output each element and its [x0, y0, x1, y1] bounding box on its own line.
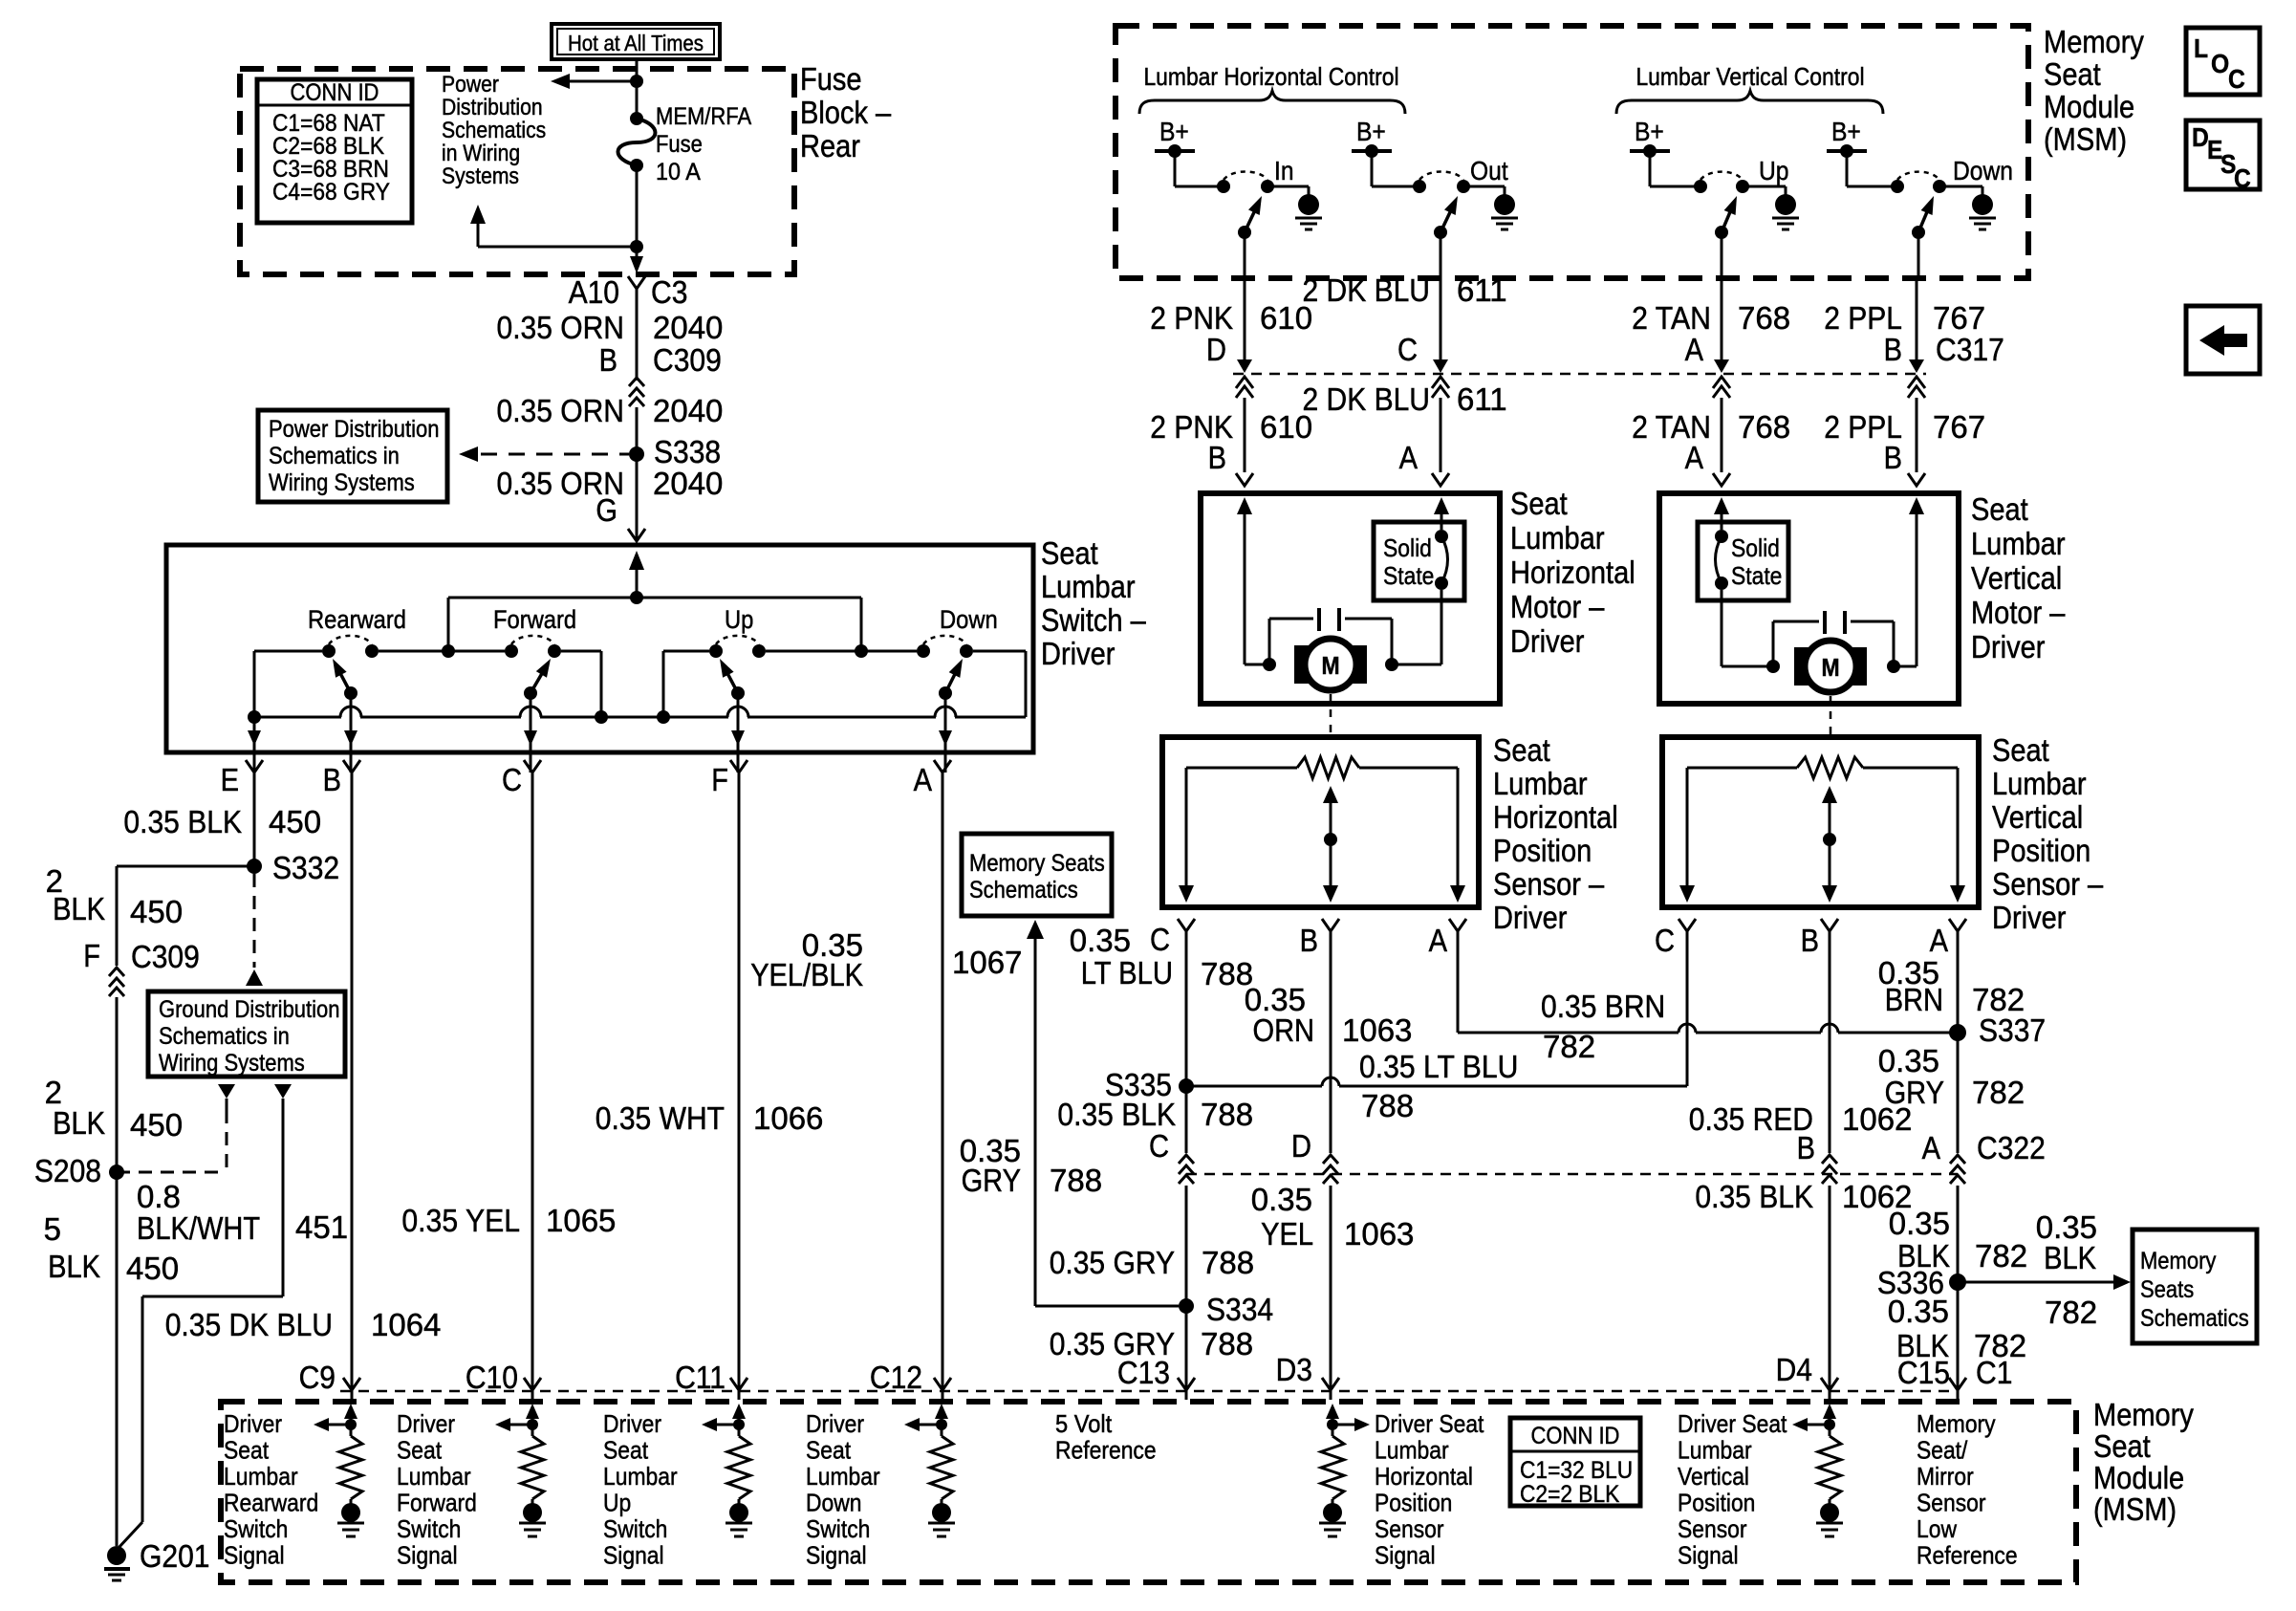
svg-text:C12: C12: [870, 1360, 922, 1395]
svg-text:Horizontal: Horizontal: [1510, 555, 1635, 590]
svg-text:Seat/: Seat/: [1917, 1436, 1968, 1465]
svg-text:B+: B+: [1356, 117, 1386, 146]
svg-text:BLK: BLK: [2044, 1240, 2096, 1275]
svg-text:Position: Position: [1992, 833, 2090, 868]
svg-text:A: A: [914, 762, 932, 797]
svg-text:Motor –: Motor –: [1510, 589, 1605, 624]
svg-text:Down: Down: [940, 605, 998, 634]
svg-text:Sensor: Sensor: [1375, 1514, 1444, 1543]
svg-text:M: M: [1821, 653, 1839, 682]
svg-text:B: B: [1801, 923, 1819, 958]
svg-text:Signal: Signal: [224, 1541, 285, 1570]
svg-text:A: A: [1930, 923, 1948, 958]
svg-text:Signal: Signal: [806, 1541, 867, 1570]
svg-text:Block –: Block –: [800, 95, 892, 130]
svg-text:788: 788: [1202, 1245, 1254, 1280]
svg-text:Memory: Memory: [2093, 1397, 2194, 1432]
svg-text:782: 782: [1543, 1029, 1595, 1064]
svg-text:Driver Seat: Driver Seat: [1678, 1409, 1787, 1438]
svg-text:Solid: Solid: [1383, 533, 1432, 562]
svg-text:0.35: 0.35: [1889, 1206, 1950, 1241]
svg-text:788: 788: [1050, 1163, 1102, 1198]
svg-text:Schematics: Schematics: [2140, 1305, 2249, 1332]
svg-text:B: B: [1884, 440, 1902, 475]
svg-text:Position: Position: [1375, 1489, 1452, 1517]
svg-text:Down: Down: [1953, 156, 2013, 185]
svg-text:451: 451: [295, 1209, 348, 1245]
svg-text:Signal: Signal: [1678, 1541, 1739, 1570]
svg-text:Schematics: Schematics: [969, 877, 1078, 903]
svg-text:788: 788: [1201, 1326, 1253, 1361]
svg-text:Driver Seat: Driver Seat: [1375, 1409, 1484, 1438]
svg-text:S332: S332: [272, 850, 339, 885]
svg-text:Up: Up: [603, 1489, 631, 1517]
svg-text:A: A: [1429, 923, 1447, 958]
svg-text:Seat: Seat: [1992, 732, 2049, 768]
svg-text:(MSM): (MSM): [2093, 1491, 2177, 1527]
svg-text:2 TAN: 2 TAN: [1632, 300, 1711, 336]
svg-text:A: A: [1685, 332, 1703, 367]
svg-text:C2=2 BLK: C2=2 BLK: [1520, 1481, 1620, 1508]
svg-text:Lumbar: Lumbar: [1971, 526, 2066, 561]
svg-text:A10: A10: [569, 274, 619, 310]
svg-text:Power: Power: [442, 72, 499, 98]
svg-text:C10: C10: [466, 1360, 518, 1395]
svg-text:Vertical: Vertical: [1992, 799, 2083, 835]
svg-text:782: 782: [2045, 1295, 2097, 1330]
svg-text:10 A: 10 A: [656, 159, 701, 185]
svg-text:Wiring Systems: Wiring Systems: [269, 469, 415, 496]
svg-text:788: 788: [1361, 1088, 1414, 1123]
svg-text:450: 450: [130, 894, 183, 929]
svg-text:D3: D3: [1276, 1352, 1312, 1387]
svg-text:Signal: Signal: [397, 1541, 458, 1570]
svg-text:Seat: Seat: [397, 1436, 443, 1465]
svg-text:A: A: [1399, 440, 1418, 475]
svg-text:Seat: Seat: [1041, 535, 1098, 571]
svg-text:B+: B+: [1159, 117, 1189, 146]
svg-text:Lumbar: Lumbar: [397, 1462, 471, 1491]
svg-text:0.35: 0.35: [1070, 923, 1131, 958]
svg-text:Motor –: Motor –: [1971, 595, 2066, 630]
svg-text:State: State: [1731, 561, 1782, 590]
svg-text:0.35 BLK: 0.35 BLK: [1695, 1179, 1813, 1214]
svg-text:C1=32 BLU: C1=32 BLU: [1520, 1457, 1633, 1484]
svg-text:Rearward: Rearward: [224, 1489, 318, 1517]
svg-text:ORN: ORN: [1253, 1012, 1315, 1048]
svg-text:BLK: BLK: [48, 1249, 100, 1284]
svg-text:Seat: Seat: [224, 1436, 270, 1465]
svg-text:1066: 1066: [753, 1100, 823, 1136]
svg-text:Driver: Driver: [397, 1409, 455, 1438]
svg-text:G: G: [596, 492, 617, 528]
svg-text:D4: D4: [1776, 1352, 1812, 1387]
svg-text:Position: Position: [1493, 833, 1592, 868]
svg-text:O: O: [2211, 49, 2229, 78]
svg-text:State: State: [1383, 561, 1434, 590]
svg-text:Mirror: Mirror: [1917, 1462, 1974, 1491]
svg-text:0.35 ORN: 0.35 ORN: [497, 310, 625, 345]
svg-text:1067: 1067: [952, 945, 1022, 980]
svg-text:C317: C317: [1936, 332, 2004, 367]
svg-text:Reference: Reference: [1917, 1541, 2018, 1570]
svg-text:0.35 LT BLU: 0.35 LT BLU: [1359, 1049, 1518, 1084]
svg-text:Up: Up: [1759, 156, 1789, 185]
svg-text:Driver: Driver: [1971, 629, 2045, 664]
svg-text:Down: Down: [806, 1489, 862, 1517]
svg-text:Schematics in: Schematics in: [269, 443, 400, 469]
svg-text:782: 782: [1972, 982, 2025, 1017]
svg-text:Fuse: Fuse: [800, 61, 862, 97]
svg-text:0.8: 0.8: [137, 1179, 181, 1214]
svg-text:Switch: Switch: [806, 1514, 870, 1543]
svg-text:Driver: Driver: [603, 1409, 661, 1438]
svg-text:in Wiring: in Wiring: [442, 141, 520, 166]
svg-text:Lumbar: Lumbar: [1041, 569, 1136, 604]
svg-text:Driver: Driver: [1510, 623, 1584, 659]
svg-text:Hot at All Times: Hot at All Times: [568, 31, 704, 55]
svg-text:Module: Module: [2093, 1460, 2184, 1495]
svg-text:Forward: Forward: [397, 1489, 477, 1517]
svg-text:Seat: Seat: [1493, 732, 1550, 768]
svg-text:C: C: [502, 762, 522, 797]
svg-text:Sensor –: Sensor –: [1493, 866, 1605, 902]
svg-text:768: 768: [1738, 300, 1790, 336]
svg-text:Rearward: Rearward: [308, 605, 406, 634]
svg-text:C: C: [2234, 163, 2251, 193]
svg-text:Up: Up: [725, 605, 753, 634]
svg-text:0.35 ORN: 0.35 ORN: [497, 393, 625, 428]
svg-text:Ground Distribution: Ground Distribution: [159, 996, 340, 1023]
svg-text:B+: B+: [1635, 117, 1664, 146]
svg-text:Memory: Memory: [2044, 24, 2144, 59]
svg-text:Systems: Systems: [442, 163, 519, 189]
svg-text:Schematics in: Schematics in: [159, 1023, 290, 1050]
svg-text:B: B: [1208, 440, 1226, 475]
svg-text:2040: 2040: [653, 310, 723, 345]
svg-text:5 Volt: 5 Volt: [1055, 1409, 1113, 1438]
svg-text:S334: S334: [1206, 1292, 1273, 1327]
svg-text:1063: 1063: [1342, 1012, 1412, 1048]
svg-text:768: 768: [1738, 409, 1790, 445]
svg-text:B: B: [323, 762, 341, 797]
svg-text:CONN ID: CONN ID: [1531, 1423, 1620, 1449]
svg-text:C4=68 GRY: C4=68 GRY: [272, 179, 390, 206]
svg-text:Seat: Seat: [1510, 486, 1568, 521]
svg-text:2 DK BLU: 2 DK BLU: [1303, 272, 1431, 308]
svg-text:Memory: Memory: [2140, 1248, 2217, 1274]
svg-text:Vertical: Vertical: [1678, 1462, 1749, 1491]
svg-text:Seats: Seats: [2140, 1276, 2194, 1303]
svg-text:Horizontal: Horizontal: [1375, 1462, 1473, 1491]
svg-text:Seat: Seat: [2093, 1428, 2151, 1464]
svg-text:C: C: [1150, 922, 1170, 957]
svg-text:2 DK BLU: 2 DK BLU: [1303, 381, 1431, 417]
svg-text:C: C: [2228, 64, 2245, 94]
svg-text:2 PNK: 2 PNK: [1150, 300, 1233, 336]
svg-text:610: 610: [1260, 300, 1312, 336]
svg-text:Fuse: Fuse: [656, 131, 703, 158]
svg-text:D: D: [1291, 1128, 1311, 1164]
svg-text:C322: C322: [1977, 1130, 2046, 1165]
svg-text:611: 611: [1457, 272, 1507, 308]
svg-text:M: M: [1321, 651, 1339, 680]
svg-text:0.35: 0.35: [1878, 1043, 1939, 1078]
svg-text:B+: B+: [1831, 117, 1861, 146]
svg-text:450: 450: [269, 804, 321, 839]
svg-text:In: In: [1274, 156, 1294, 185]
svg-text:Switch: Switch: [397, 1514, 461, 1543]
svg-text:Memory Seats: Memory Seats: [969, 850, 1105, 877]
svg-text:Rear: Rear: [800, 128, 860, 163]
svg-text:C309: C309: [131, 939, 200, 974]
svg-text:C: C: [1397, 332, 1418, 367]
svg-text:S208: S208: [34, 1153, 101, 1188]
svg-text:0.35 YEL: 0.35 YEL: [401, 1203, 520, 1238]
svg-text:Signal: Signal: [603, 1541, 664, 1570]
svg-text:0.35 BLK: 0.35 BLK: [1057, 1097, 1176, 1132]
svg-text:Seat: Seat: [1971, 491, 2028, 527]
svg-text:Driver: Driver: [1992, 900, 2066, 935]
svg-text:MEM/RFA: MEM/RFA: [656, 103, 751, 130]
svg-text:CONN ID: CONN ID: [291, 79, 379, 106]
svg-text:2040: 2040: [653, 393, 723, 428]
svg-text:Lumbar: Lumbar: [1375, 1436, 1449, 1465]
svg-text:0.35: 0.35: [1251, 1182, 1312, 1217]
svg-text:C309: C309: [653, 342, 722, 378]
svg-text:Reference: Reference: [1055, 1436, 1157, 1465]
svg-text:Lumbar: Lumbar: [806, 1462, 880, 1491]
svg-text:LT BLU: LT BLU: [1081, 955, 1173, 991]
svg-text:C: C: [1149, 1128, 1169, 1164]
svg-text:611: 611: [1457, 381, 1507, 417]
svg-text:2 PPL: 2 PPL: [1824, 300, 1902, 336]
svg-text:Low: Low: [1917, 1514, 1957, 1543]
svg-text:782: 782: [1975, 1238, 2027, 1274]
svg-text:Lumbar: Lumbar: [603, 1462, 678, 1491]
svg-text:G201: G201: [140, 1538, 210, 1574]
svg-text:Driver: Driver: [1041, 636, 1115, 671]
svg-text:Distribution: Distribution: [442, 95, 543, 120]
svg-text:L: L: [2194, 33, 2208, 63]
svg-text:2040: 2040: [653, 466, 723, 501]
svg-text:Sensor –: Sensor –: [1992, 866, 2104, 902]
svg-text:F: F: [711, 762, 728, 797]
svg-text:1064: 1064: [371, 1307, 441, 1342]
svg-text:Power Distribution: Power Distribution: [269, 416, 440, 443]
svg-text:Horizontal: Horizontal: [1493, 799, 1618, 835]
svg-text:Lumbar: Lumbar: [1992, 766, 2087, 801]
svg-text:Lumbar: Lumbar: [1510, 520, 1605, 555]
svg-text:Sensor: Sensor: [1678, 1514, 1747, 1543]
svg-text:Switch –: Switch –: [1041, 602, 1146, 638]
svg-text:C11: C11: [675, 1360, 726, 1395]
svg-text:YEL: YEL: [1261, 1216, 1313, 1252]
svg-text:Position: Position: [1678, 1489, 1755, 1517]
svg-text:A: A: [1685, 440, 1703, 475]
svg-text:BLK: BLK: [53, 891, 105, 926]
svg-text:C13: C13: [1117, 1355, 1170, 1390]
svg-text:0.35 WHT: 0.35 WHT: [596, 1100, 725, 1136]
svg-text:Memory: Memory: [1917, 1409, 1996, 1438]
svg-text:(MSM): (MSM): [2044, 121, 2127, 157]
svg-text:BLK/WHT: BLK/WHT: [137, 1210, 260, 1246]
svg-text:F: F: [83, 938, 100, 973]
svg-text:YEL/BLK: YEL/BLK: [750, 957, 863, 992]
svg-text:Switch: Switch: [224, 1514, 288, 1543]
svg-text:0.35 RED: 0.35 RED: [1689, 1101, 1813, 1137]
svg-text:B: B: [1884, 332, 1902, 367]
svg-text:GRY: GRY: [962, 1163, 1021, 1198]
svg-text:0.35 BRN: 0.35 BRN: [1541, 989, 1665, 1024]
svg-text:Driver: Driver: [224, 1409, 282, 1438]
svg-text:0.35 DK BLU: 0.35 DK BLU: [165, 1307, 333, 1342]
svg-text:BRN: BRN: [1885, 982, 1943, 1017]
svg-text:Lumbar: Lumbar: [1678, 1436, 1752, 1465]
svg-text:Signal: Signal: [1375, 1541, 1436, 1570]
svg-text:Schematics: Schematics: [442, 118, 546, 143]
svg-text:5: 5: [44, 1211, 61, 1247]
svg-text:Driver: Driver: [1493, 900, 1567, 935]
svg-text:A: A: [1922, 1130, 1940, 1165]
svg-text:Vertical: Vertical: [1971, 560, 2062, 596]
svg-text:0.35 GRY: 0.35 GRY: [1050, 1245, 1175, 1280]
svg-text:Seat: Seat: [806, 1436, 852, 1465]
svg-text:C9: C9: [299, 1360, 336, 1395]
svg-text:Lumbar: Lumbar: [224, 1462, 298, 1491]
svg-text:Out: Out: [1470, 156, 1508, 185]
svg-text:S337: S337: [1979, 1012, 2046, 1048]
svg-text:0.35 BLK: 0.35 BLK: [123, 804, 242, 839]
svg-text:788: 788: [1201, 1097, 1253, 1132]
svg-text:C15: C15: [1897, 1355, 1950, 1390]
svg-text:1065: 1065: [546, 1203, 616, 1238]
svg-text:1062: 1062: [1842, 1101, 1912, 1137]
svg-text:0.35: 0.35: [1888, 1294, 1949, 1329]
svg-text:767: 767: [1933, 409, 1985, 445]
svg-text:Switch: Switch: [603, 1514, 667, 1543]
svg-text:C: C: [1655, 923, 1675, 958]
svg-text:C1: C1: [1976, 1355, 2012, 1390]
svg-text:610: 610: [1260, 409, 1312, 445]
svg-text:Solid: Solid: [1731, 533, 1780, 562]
svg-text:Seat: Seat: [603, 1436, 649, 1465]
svg-text:Sensor: Sensor: [1917, 1489, 1986, 1517]
svg-text:E: E: [221, 762, 239, 797]
svg-text:Seat: Seat: [2044, 56, 2101, 92]
svg-text:Wiring Systems: Wiring Systems: [159, 1050, 305, 1077]
svg-text:450: 450: [130, 1107, 183, 1143]
svg-text:Lumbar Horizontal Control: Lumbar Horizontal Control: [1143, 62, 1398, 91]
svg-text:B: B: [599, 342, 617, 378]
svg-text:1063: 1063: [1344, 1216, 1414, 1252]
svg-text:Lumbar: Lumbar: [1493, 766, 1588, 801]
svg-text:C3: C3: [651, 274, 687, 310]
svg-text:BLK: BLK: [53, 1105, 105, 1141]
svg-text:Forward: Forward: [493, 605, 576, 634]
svg-text:S338: S338: [654, 434, 721, 469]
svg-text:Module: Module: [2044, 89, 2134, 124]
svg-text:782: 782: [1972, 1075, 2025, 1110]
svg-text:Driver: Driver: [806, 1409, 864, 1438]
svg-text:767: 767: [1933, 300, 1985, 336]
svg-text:B: B: [1300, 923, 1318, 958]
svg-text:D: D: [1206, 332, 1226, 367]
svg-text:450: 450: [126, 1251, 179, 1286]
